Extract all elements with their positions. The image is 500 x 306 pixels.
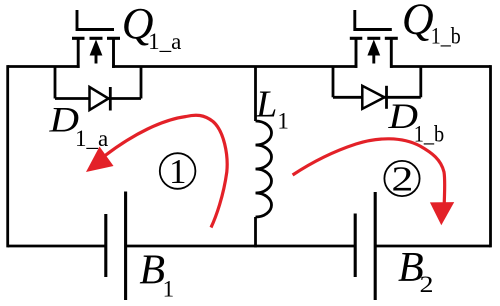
Q1_a source contact bar: [72, 37, 85, 40]
wire: top rail right segment: [390, 65, 490, 68]
wire: left edge: [6, 65, 9, 247]
D1_a cathode bar: [109, 87, 112, 111]
svg-text:1_b: 1_b: [431, 24, 461, 49]
battery B2: [355, 192, 375, 300]
B1 negative plate (short): [104, 214, 107, 277]
wire: bottom rail left segment: [8, 245, 106, 248]
Q1_b body contact bar: [367, 37, 380, 40]
svg-text:Q: Q: [402, 0, 434, 44]
Q1_b source contact bar: [350, 37, 363, 40]
Q1_b drain leg wire: [390, 38, 393, 68]
svg-text:1_a: 1_a: [75, 126, 108, 151]
D1_b cathode bar: [385, 86, 388, 109]
D1_b loop left vertical wire: [332, 67, 335, 98]
svg-text:1_a: 1_a: [148, 29, 181, 54]
svg-text:2: 2: [391, 160, 413, 199]
L1 bottom lead wire: [254, 217, 257, 247]
diode D1_a: [55, 67, 141, 111]
B2 positive plate (long): [374, 192, 377, 300]
L1 coil winding: [256, 121, 272, 217]
wire: bottom rail middle segment: [126, 245, 356, 248]
current loop 2 red arrow head: [430, 202, 454, 225]
D1_a loop left vertical wire: [54, 67, 57, 99]
wire: top rail left segment: [8, 65, 80, 68]
Q1_a body arrow head: [90, 40, 103, 56]
D1_b anode triangle: [362, 86, 384, 109]
inductor L1: [256, 67, 272, 248]
svg-text:1: 1: [169, 152, 187, 191]
D1_b loop bottom horizontal wire: [333, 96, 421, 99]
Q1_a gate lead: [77, 10, 114, 30]
Q1_b body arrow stem: [372, 53, 375, 64]
Q1_a source leg wire: [77, 38, 80, 68]
Q1_b source leg wire: [355, 38, 358, 68]
node label circled 1: [160, 152, 196, 191]
L1 top lead wire: [254, 67, 257, 122]
current loop 2 red arrow curve: [293, 139, 445, 205]
svg-text:2: 2: [420, 272, 434, 297]
B1 positive plate (long): [124, 192, 127, 301]
D1_a loop right vertical wire: [140, 67, 143, 99]
Q1_a body contact bar: [90, 37, 103, 40]
Q1_b drain contact bar: [385, 37, 398, 40]
B2 negative plate (short): [354, 214, 357, 278]
D1_a anode triangle: [90, 87, 109, 110]
wire: top rail center segment: [112, 65, 357, 68]
Q1_a drain leg wire: [112, 38, 115, 68]
D1_a loop bottom horizontal wire: [55, 97, 141, 100]
transistor Q1_b (MOSFET): [350, 10, 398, 68]
transistor Q1_a (MOSFET): [72, 10, 120, 68]
svg-text:B: B: [139, 248, 165, 294]
svg-text:1: 1: [277, 109, 289, 134]
svg-text:1_b: 1_b: [414, 122, 445, 147]
svg-text:L: L: [255, 83, 277, 125]
Q1_b body arrow head: [367, 40, 380, 56]
svg-text:1: 1: [163, 277, 175, 302]
current loop 1 red arrow curve: [105, 115, 228, 227]
current loop 1 red arrow head: [86, 147, 114, 173]
D1_b loop right vertical wire: [419, 67, 422, 98]
Q1_b gate lead: [355, 10, 392, 30]
wire: bottom rail right segment: [375, 245, 490, 248]
node label circled 2: [384, 160, 419, 199]
wire: right edge: [489, 65, 492, 247]
battery B1: [106, 192, 126, 301]
Q1_a drain contact bar: [107, 37, 120, 40]
diode D1_b: [333, 67, 421, 109]
Q1_a body arrow stem: [95, 53, 98, 64]
